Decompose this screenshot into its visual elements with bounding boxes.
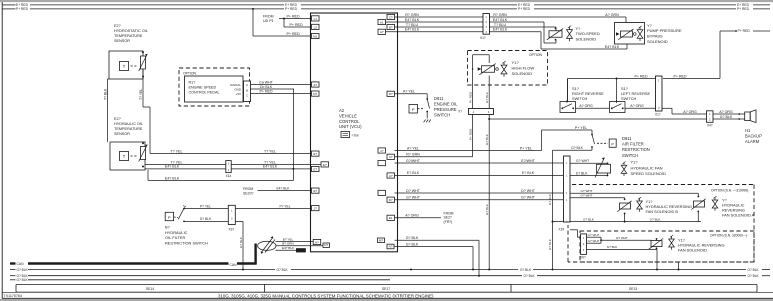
svg-text:P? YEL: P? YEL [200, 204, 211, 208]
svg-text:M1: M1 [313, 34, 317, 38]
svg-text:E4? BLK: E4? BLK [165, 176, 180, 180]
svg-text:G?/WHT: G?/WHT [406, 159, 421, 163]
svg-text:A? GRN: A? GRN [605, 13, 619, 17]
svg-text:P+ RED: P+ RED [673, 74, 686, 78]
svg-text:R? GRN: R? GRN [406, 153, 420, 157]
svg-text:E? BLK: E? BLK [522, 171, 535, 175]
svg-text:TEMPERATURE: TEMPERATURE [114, 34, 143, 38]
svg-text:E4? BLK: E4? BLK [405, 18, 420, 22]
svg-text:E?: E? [313, 152, 317, 156]
svg-text:C?: C? [389, 15, 393, 19]
svg-text:VEHICLE: VEHICLE [339, 113, 357, 118]
svg-text:T? YEL: T? YEL [139, 89, 143, 100]
svg-text:D? WHT: D? WHT [521, 189, 536, 193]
svg-text:+5V: +5V [236, 92, 241, 96]
svg-text:Ca WHT: Ca WHT [259, 80, 274, 84]
svg-text:BYPASS: BYPASS [647, 34, 663, 39]
svg-text:T: T [123, 64, 126, 69]
svg-text:SWITCH: SWITCH [622, 153, 638, 158]
svg-text:A? ORG: A? ORG [579, 104, 593, 108]
svg-text:L2: L2 [314, 25, 318, 29]
svg-text:Y1?: Y1? [631, 160, 639, 165]
svg-text:B?: B? [389, 25, 393, 29]
svg-text:BACKUP: BACKUP [745, 133, 762, 138]
svg-text:D?: D? [389, 198, 393, 202]
svg-text:=J/or: =J/or [352, 133, 360, 137]
svg-text:G? BLK: G? BLK [17, 268, 29, 272]
svg-text:G? BLK: G? BLK [485, 91, 489, 103]
svg-text:SE20?: SE20? [243, 191, 254, 195]
svg-text:P? YEL: P? YEL [279, 204, 290, 208]
svg-text:G? WHT: G? WHT [521, 196, 536, 200]
svg-text:T? YEL: T? YEL [171, 160, 183, 164]
svg-text:A?: A? [389, 155, 393, 159]
svg-text:E4? BLK: E4? BLK [276, 186, 290, 190]
svg-text:G? WHT: G? WHT [581, 189, 593, 193]
svg-text:H1: H1 [745, 128, 751, 133]
svg-text:C: C [246, 94, 248, 98]
svg-text:T? YEL: T? YEL [264, 160, 276, 164]
svg-text:T? BLK: T? BLK [103, 88, 107, 100]
svg-text:A? ORG: A? ORG [683, 110, 697, 114]
svg-text:Cb BLK: Cb BLK [260, 85, 273, 89]
svg-text:X3?: X3? [229, 227, 235, 231]
svg-text:Y?: Y? [647, 23, 653, 28]
svg-text:A?: A? [389, 174, 393, 178]
svg-text:E2?: E2? [114, 24, 121, 28]
svg-text:R1?: R1? [189, 81, 196, 85]
svg-text:OPTION: OPTION [183, 72, 197, 76]
svg-text:X1?: X1? [655, 113, 661, 117]
svg-text:T? YEL: T? YEL [171, 149, 183, 153]
svg-text:G? BLK: G? BLK [720, 115, 733, 119]
svg-text:SOLENOID: SOLENOID [512, 71, 533, 76]
svg-text:G? BLK: G? BLK [548, 238, 552, 250]
svg-text:P+ RED: P+ RED [289, 23, 302, 27]
svg-text:G? WHT: G? WHT [581, 194, 593, 198]
svg-text:G? BLK: G? BLK [277, 268, 289, 272]
svg-text:G? WHT: G? WHT [576, 159, 589, 163]
svg-text:G? BLK: G? BLK [485, 203, 489, 215]
svg-text:HYDRAULIC FAN: HYDRAULIC FAN [631, 165, 663, 170]
svg-text:A?: A? [380, 30, 384, 34]
svg-text:E4? BLK: E4? BLK [493, 18, 508, 22]
svg-text:RESTRICTION SWITCH: RESTRICTION SWITCH [165, 240, 208, 245]
svg-text:P: P [611, 142, 614, 146]
svg-text:1?: 1? [380, 149, 384, 153]
svg-text:P+ RED: P+ RED [259, 89, 272, 93]
svg-text:G? BLK: G? BLK [17, 278, 29, 282]
svg-text:M?: M? [379, 238, 383, 242]
svg-text:SENSOR: SENSOR [114, 39, 130, 43]
svg-text:A? YEL: A? YEL [407, 146, 419, 150]
svg-text:E1: E1 [389, 216, 393, 220]
svg-text:T? BLU: T? BLU [406, 23, 419, 27]
svg-text:D?: D? [324, 243, 328, 247]
svg-text:UD P1: UD P1 [263, 19, 274, 23]
svg-text:A?: A? [313, 83, 317, 87]
svg-text:G? BLK: G? BLK [607, 245, 618, 249]
svg-text:G? WHT: G? WHT [588, 233, 600, 237]
svg-text:E2?: E2? [114, 117, 121, 121]
svg-text:G? BLK: G? BLK [406, 236, 419, 240]
svg-text:FAN SOLENOID A: FAN SOLENOID A [722, 212, 755, 217]
svg-text:G? BLK: G? BLK [485, 133, 489, 145]
svg-text:G? BLK: G? BLK [571, 146, 584, 150]
svg-text:P+ YEL: P+ YEL [575, 126, 587, 130]
svg-text:(FR?): (FR?) [444, 220, 453, 224]
svg-text:ENGINE SPEED: ENGINE SPEED [189, 85, 217, 89]
svg-text:E4? BLK: E4? BLK [165, 165, 180, 169]
svg-text:E? WHT: E? WHT [616, 236, 628, 240]
svg-text:SOLENOID: SOLENOID [647, 39, 668, 44]
svg-text:A: A [246, 83, 248, 87]
svg-text:CONTROL PEDAL: CONTROL PEDAL [189, 90, 220, 94]
svg-text:P+ RED: P+ RED [737, 7, 750, 11]
svg-text:G? WHT: G? WHT [588, 239, 600, 243]
svg-text:G? BLK: G? BLK [239, 236, 243, 248]
svg-text:A? ORG: A? ORG [719, 110, 733, 114]
svg-text:P+ RED: P+ RED [468, 91, 472, 103]
svg-text:310G, 310SG, 410G, 325G MANUAL: 310G, 310SG, 410G, 325G MANUAL CONTROLS … [218, 293, 434, 298]
svg-text:OPTION: OPTION [529, 53, 543, 57]
svg-text:D?: D? [389, 92, 393, 96]
svg-text:P+ RED: P+ RED [286, 32, 299, 36]
svg-text:T? YEL: T? YEL [264, 149, 276, 153]
svg-text:P: P [412, 107, 415, 112]
svg-text:E? BLK: E? BLK [576, 171, 588, 175]
svg-text:PRESSURE: PRESSURE [434, 107, 457, 112]
svg-text:P: P [168, 215, 171, 220]
svg-text:G? BLK: G? BLK [200, 217, 212, 221]
svg-text:T: T [123, 154, 126, 159]
svg-text:D911: D911 [622, 136, 632, 141]
svg-text:AIR FILTER: AIR FILTER [622, 142, 644, 147]
svg-text:P+ RED: P+ RED [16, 7, 29, 11]
svg-text:D? WHT: D? WHT [406, 189, 421, 193]
svg-text:P+ RED: P+ RED [634, 74, 647, 78]
svg-text:TWO-SPEED: TWO-SPEED [576, 31, 600, 36]
svg-text:G? WHT: G? WHT [406, 196, 421, 200]
svg-text:T? BLU: T? BLU [494, 23, 507, 27]
svg-text:SPEED SOLENOID: SPEED SOLENOID [631, 171, 666, 176]
svg-text:X4?: X4? [707, 124, 713, 128]
svg-text:Y?: Y? [576, 26, 582, 31]
svg-text:X9?: X9? [580, 256, 586, 260]
svg-text:A2: A2 [339, 108, 345, 113]
svg-text:FROM: FROM [243, 187, 253, 191]
svg-text:B: B [246, 88, 248, 92]
svg-text:R? GRN: R? GRN [405, 13, 419, 17]
svg-text:GND: GND [234, 87, 242, 91]
svg-text:SWITCH: SWITCH [572, 96, 588, 101]
svg-text:A? YEL: A? YEL [403, 90, 415, 94]
svg-text:G? BLK: G? BLK [748, 274, 760, 278]
svg-text:B? GRN: B? GRN [282, 242, 294, 246]
svg-text:G? BLK: G? BLK [583, 217, 595, 221]
svg-text:SOLENOID: SOLENOID [576, 37, 597, 42]
svg-text:X?: X? [458, 110, 462, 114]
svg-text:HYDRAULIC OIL: HYDRAULIC OIL [114, 122, 143, 126]
svg-text:E4? BLK: E4? BLK [405, 28, 420, 32]
svg-text:HYDROSTATIC OIL: HYDROSTATIC OIL [114, 29, 148, 33]
svg-text:SE17: SE17 [382, 287, 390, 291]
svg-text:ENGINE OIL: ENGINE OIL [434, 102, 458, 107]
svg-text:G? BLK: G? BLK [524, 274, 536, 278]
svg-text:R? GRN: R? GRN [493, 13, 507, 17]
svg-text:G? BLK: G? BLK [406, 242, 419, 246]
svg-text:D?: D? [313, 92, 317, 96]
svg-text:CAN: CAN [230, 263, 238, 267]
svg-text:P+ RED: P+ RED [285, 7, 298, 11]
svg-text:J?: J? [314, 207, 318, 211]
svg-text:E?/WHT: E?/WHT [521, 159, 535, 163]
svg-text:G? BLK: G? BLK [748, 268, 760, 272]
svg-text:CAN: CAN [17, 262, 25, 266]
svg-text:P+ RED: P+ RED [518, 7, 531, 11]
svg-text:E4? BLK: E4? BLK [263, 165, 278, 169]
svg-text:TEMPERATURE: TEMPERATURE [114, 127, 143, 131]
svg-text:CONTROL: CONTROL [339, 119, 360, 124]
svg-text:A? ORG: A? ORG [405, 214, 419, 218]
svg-text:SENSOR: SENSOR [114, 132, 130, 136]
svg-text:X1?: X1? [480, 36, 486, 40]
svg-text:PUMP PRESSURE: PUMP PRESSURE [647, 28, 682, 33]
svg-text:HIGH FLOW: HIGH FLOW [512, 66, 535, 71]
svg-text:P+ RED: P+ RED [468, 128, 472, 140]
svg-text:ALARM: ALARM [745, 139, 760, 144]
svg-text:X14: X14 [226, 174, 232, 178]
svg-text:FROM: FROM [263, 15, 274, 19]
svg-text:E?: E? [313, 189, 317, 193]
svg-text:OPTION (S.N. —319999): OPTION (S.N. —319999) [711, 189, 748, 193]
svg-text:UNIT (VCU): UNIT (VCU) [339, 124, 362, 129]
svg-text:P+ YEL: P+ YEL [520, 146, 532, 150]
svg-text:RESTRICTION: RESTRICTION [622, 147, 650, 152]
svg-text:SWITCH: SWITCH [621, 96, 637, 101]
svg-text:SWITCH: SWITCH [434, 113, 450, 118]
svg-text:E?: E? [313, 167, 317, 171]
svg-text:P+ RED: P+ RED [286, 14, 299, 18]
svg-text:E4? BLK: E4? BLK [493, 28, 508, 32]
svg-text:H?: H? [315, 240, 319, 244]
svg-text:A1: A1 [380, 20, 384, 24]
svg-text:Y1?: Y1? [512, 60, 520, 65]
svg-text:G? BLK: G? BLK [520, 268, 532, 272]
svg-text:SE14: SE14 [146, 287, 154, 291]
svg-text:L1: L1 [314, 17, 318, 21]
svg-text:SIGNAL: SIGNAL [230, 83, 241, 87]
svg-text:G? BLK: G? BLK [548, 193, 552, 205]
svg-text:X1#: X1# [559, 228, 565, 232]
svg-text:A? ORG: A? ORG [630, 104, 644, 108]
svg-text:N?: N? [389, 245, 393, 249]
svg-text:P+ RED: P+ RED [738, 29, 751, 33]
svg-text:E4? BLK: E4? BLK [605, 45, 620, 49]
svg-text:D911: D911 [434, 96, 444, 101]
svg-text:TX1170764: TX1170764 [4, 294, 22, 298]
svg-text:FAN SOLENOID B: FAN SOLENOID B [646, 209, 679, 214]
svg-text:SE13: SE13 [629, 287, 637, 291]
svg-text:E4? BLK: E4? BLK [282, 246, 295, 250]
svg-text:FAN SOLENOID: FAN SOLENOID [678, 247, 707, 252]
svg-text:E?: E? [323, 163, 327, 167]
svg-text:OPTION (S.N. 320000—): OPTION (S.N. 320000—) [710, 234, 747, 238]
svg-text:E? BLK: E? BLK [407, 171, 420, 175]
svg-text:G? BLK: G? BLK [650, 217, 662, 221]
